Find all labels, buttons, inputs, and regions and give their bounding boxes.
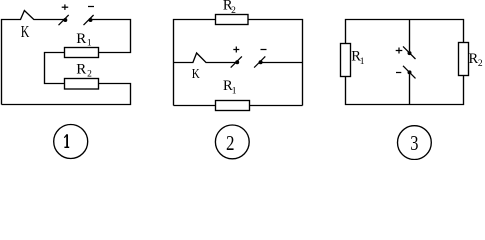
svg-text:K: K xyxy=(21,22,30,41)
svg-text:2: 2 xyxy=(87,70,92,80)
svg-text:R: R xyxy=(76,62,86,78)
svg-text:R: R xyxy=(76,31,86,47)
svg-text:1: 1 xyxy=(360,57,365,67)
svg-text:K: K xyxy=(192,66,200,81)
svg-text:1: 1 xyxy=(232,86,237,96)
svg-text:2: 2 xyxy=(226,131,235,155)
svg-text:2: 2 xyxy=(231,6,236,16)
svg-text:1: 1 xyxy=(87,39,92,49)
svg-text:3: 3 xyxy=(410,131,418,155)
svg-text:2: 2 xyxy=(478,59,483,69)
